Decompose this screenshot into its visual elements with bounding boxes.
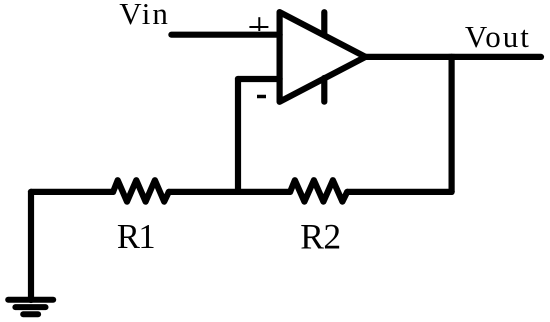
op-amp U1: [280, 12, 366, 102]
node A junction: [235, 189, 241, 195]
wire ground corner to R1: [31, 189, 113, 195]
resistor R1: [113, 180, 169, 201]
op-amp U1 positive supply pin: [321, 12, 327, 35]
op-amp U1 negative supply pin: [321, 78, 327, 102]
wire output feedback drop: [449, 57, 455, 192]
wire R1 to node A: [169, 189, 238, 195]
wire Vin to op-amp noninverting input: [171, 32, 279, 38]
svg-text:R1: R1: [117, 218, 155, 256]
wire down to ground: [28, 192, 34, 300]
output node junction: [449, 54, 455, 60]
wire inverting input horizontal segment: [238, 76, 280, 82]
svg-text:Vout: Vout: [465, 19, 531, 54]
wire node A to R2: [238, 189, 290, 195]
- symbol at inverting input: [257, 95, 266, 99]
svg-text:R2: R2: [300, 217, 340, 257]
wire op-amp output: [366, 54, 542, 60]
wire R2 to output drop: [347, 189, 451, 195]
wire feedback vertical segment to node A: [235, 79, 241, 192]
svg-text:Vin: Vin: [119, 0, 170, 31]
+ symbol at noninverting input: [249, 17, 268, 31]
resistor R2: [290, 180, 347, 201]
ground: [8, 300, 53, 315]
